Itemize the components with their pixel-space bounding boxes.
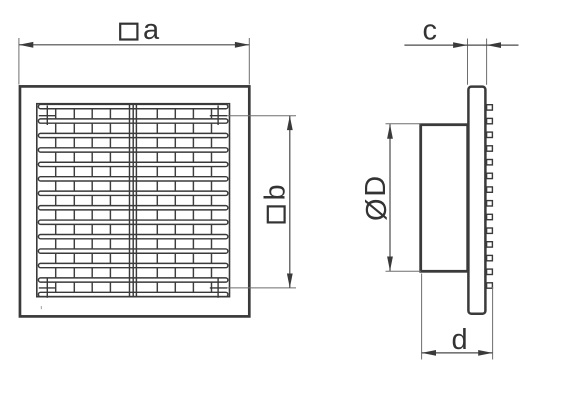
arrowhead bottom <box>287 274 293 288</box>
extension line right <box>248 38 250 85</box>
extension line right <box>486 39 488 85</box>
central triple vertical lines (over louvers) <box>130 104 137 297</box>
screw cross bottom-left <box>39 278 56 298</box>
extension line bottom <box>227 287 296 289</box>
louvers: 14 capsules <box>38 104 228 296</box>
arrowhead left (points right) <box>453 42 467 48</box>
extension line right <box>492 287 494 360</box>
label square <box>120 24 137 40</box>
svg-text:D: D <box>360 176 392 197</box>
svg-text:a: a <box>143 14 160 46</box>
svg-text:c: c <box>423 15 438 47</box>
screw cross top-left <box>39 106 56 126</box>
arrowhead top <box>287 116 293 130</box>
extension line left <box>18 38 20 85</box>
svg-text:b: b <box>260 184 292 200</box>
dimension line <box>289 116 291 288</box>
teeth <box>487 105 493 288</box>
grille outline rect <box>37 104 230 297</box>
svg-text:d: d <box>452 324 468 356</box>
screw cross bottom-right <box>210 278 227 298</box>
extension line left <box>421 274 423 360</box>
stray tick mark <box>41 306 42 309</box>
arrowhead top <box>387 124 393 138</box>
dimension line <box>389 124 391 271</box>
extension line bottom <box>386 270 422 272</box>
arrowhead right <box>235 42 249 48</box>
frame outer square <box>20 86 249 316</box>
extension line left <box>467 39 469 85</box>
dimension line <box>19 44 249 46</box>
dimension line <box>404 44 518 46</box>
label square <box>268 206 285 222</box>
extension line top <box>386 123 422 125</box>
collar (duct) <box>421 125 468 272</box>
arrowhead left <box>19 42 33 48</box>
front plate <box>468 87 485 314</box>
screw cross top-right <box>210 106 227 126</box>
arrowhead bottom <box>387 257 393 271</box>
mesh vertical lines (under louvers) <box>56 104 212 297</box>
arrowhead left <box>422 350 436 356</box>
svg-text:Ø: Ø <box>361 198 393 221</box>
extension line top <box>227 115 296 117</box>
arrowhead right (points left) <box>487 42 501 48</box>
dimension line <box>422 352 493 354</box>
arrowhead right <box>478 350 492 356</box>
